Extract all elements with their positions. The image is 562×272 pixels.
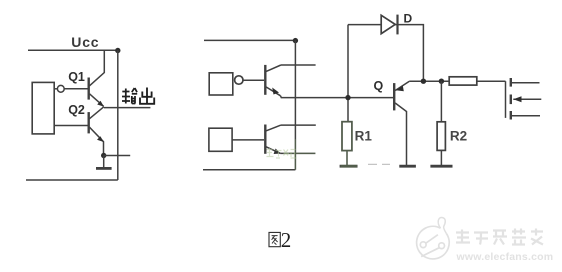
svg-text:Q1: Q1 (68, 70, 85, 84)
transistor T2 emitter (266, 147, 280, 154)
faint dashes near grounds (368, 163, 390, 165)
ground R2 (440, 150, 442, 165)
wire right vertical rail (117, 50, 119, 180)
transistor Q1 emitter arrow (97, 101, 104, 107)
wire top-left rail (204, 39, 296, 41)
transistor Q2 emitter arrow (97, 136, 104, 142)
MOSFET channel bar middle (510, 95, 512, 105)
MOSFET body arrow (513, 96, 521, 102)
node Ucc-rail junction (115, 48, 120, 53)
resistor series horizontal (449, 77, 477, 85)
transistor T1 emitter arrow (272, 88, 279, 95)
transistor T2 collector (266, 125, 281, 131)
MOSFET gate bar (505, 81, 507, 118)
transistor T2 emitter arrow (274, 149, 281, 155)
glyph 出 (146, 88, 148, 104)
MOSFET channel bar bottom (510, 111, 512, 120)
transistor Q base bar (393, 83, 395, 110)
wire center vertical rail (294, 40, 296, 169)
glyph 输 (125, 89, 127, 104)
transistor Q2 base bar (87, 112, 89, 133)
wire T1 emitter to Q base (long) (281, 96, 394, 98)
wire resistor to gate (477, 80, 506, 82)
wire box to Q2 base (54, 125, 87, 127)
wire T2 emitter horizontal (280, 152, 315, 154)
transistor Q emitter arrow (396, 86, 404, 92)
transistor T1 base bar (264, 65, 266, 95)
wire diode branch vertical (347, 25, 349, 122)
svg-text:D: D (404, 11, 413, 25)
ground Q collector (399, 165, 416, 168)
ground R1 (346, 151, 348, 166)
transistor Q1 emitter (90, 94, 104, 107)
resistor R2 (437, 122, 445, 151)
inverter bubble (57, 85, 64, 92)
svg-text:R1: R1 (355, 129, 373, 144)
wire MOSFET source (512, 115, 540, 117)
wire output (104, 107, 150, 109)
svg-text:Ucc: Ucc (71, 34, 99, 50)
logo circle (417, 226, 450, 259)
glyph 图 (269, 232, 280, 246)
svg-text:www.elecfans.com: www.elecfans.com (456, 251, 554, 263)
inverter bubble right circuit (235, 76, 243, 84)
wire diode right (395, 25, 423, 82)
transistor Q emitter (top, PNP arrow toward base) (395, 81, 409, 90)
MOSFET channel bar top (510, 78, 512, 87)
transistor T1 collector (266, 65, 281, 71)
label 输出 (drawn glyphs) (122, 88, 137, 104)
node diode/R1/base junction (345, 95, 350, 100)
wire emitter stub right (104, 155, 131, 157)
resistor R1 (342, 122, 352, 151)
node dot at R2 branch (439, 79, 444, 84)
wire T2 collector horizontal (281, 124, 316, 126)
label 图2 (caption) (269, 232, 280, 246)
transistor Q2 emitter (90, 127, 104, 155)
wire box2 to T2 base (232, 139, 264, 141)
transistor T1 emitter (PNP arrow toward base) (266, 87, 280, 96)
driver block box (32, 82, 54, 133)
watermark 电子发烧友 (gray, bottom right) (456, 229, 543, 245)
wire bottom rail (26, 179, 118, 181)
transistor T2 base bar (264, 125, 266, 154)
input box 2 (209, 128, 232, 151)
green watermark 电子发烧友 (center) (267, 148, 297, 158)
svg-text:2: 2 (281, 228, 292, 252)
node dot at diode join (421, 79, 426, 84)
diode D triangle (381, 15, 395, 33)
wire diode top left (348, 24, 381, 26)
node top rail junction (293, 38, 298, 43)
svg-text:Q: Q (374, 79, 384, 93)
wire bubble to T1 base (243, 79, 264, 81)
wire T1 collector horizontal (281, 64, 316, 66)
transistor Q collector (bottom) (395, 103, 406, 165)
transistor Q1 base bar (87, 78, 89, 100)
transistor Q2 collector (90, 107, 104, 119)
logo trace dots (420, 242, 426, 248)
node emitter junction dot (101, 153, 106, 158)
wire Ucc rail top (28, 49, 118, 51)
svg-text:Q2: Q2 (68, 103, 85, 117)
wire R2 branch vertical (440, 81, 442, 122)
ground left circuit (103, 156, 105, 168)
input box 1 (209, 73, 233, 95)
svg-text:R2: R2 (450, 129, 467, 144)
elecfans logo watermark (bottom right) (417, 218, 450, 259)
wire bubble to Q1 base (64, 88, 87, 90)
wire box to bubble (54, 88, 57, 90)
diode D cathode bar (396, 15, 398, 35)
transistor Q1 collector (90, 50, 105, 86)
logo stem curl (438, 218, 446, 234)
wire Q emitter to node (409, 80, 449, 82)
wire MOSFET drain (512, 82, 540, 84)
green tint on wires near watermark (284, 122, 357, 170)
wire bottom rail (203, 169, 295, 171)
wire MOSFET body with arrow (513, 98, 541, 100)
